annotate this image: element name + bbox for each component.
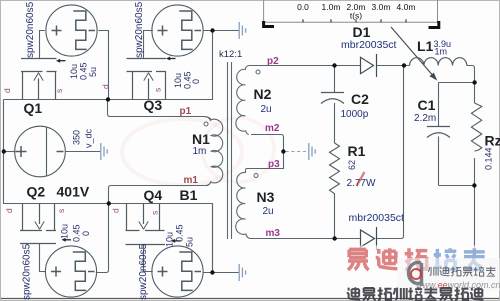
svg-text:N3: N3 (257, 189, 275, 205)
svg-text:3.0m: 3.0m (372, 2, 391, 12)
svg-text:d: d (111, 208, 121, 213)
svg-text:0.144: 0.144 (484, 147, 494, 170)
svg-text:Q2: Q2 (27, 184, 46, 200)
svg-text:R1: R1 (348, 143, 366, 159)
svg-text:0.45: 0.45 (175, 224, 185, 242)
svg-text:350: 350 (72, 130, 82, 145)
svg-text:s: s (150, 211, 160, 215)
svg-text:spw20n60s5: spw20n60s5 (22, 243, 33, 300)
svg-text:p1: p1 (180, 106, 192, 117)
svg-text:0: 0 (191, 79, 201, 84)
svg-text:5u: 5u (88, 67, 98, 77)
svg-text:spw20n60s5: spw20n60s5 (138, 243, 149, 300)
svg-text:5u: 5u (185, 237, 195, 247)
svg-text:10u: 10u (173, 73, 183, 88)
svg-text:d: d (2, 88, 12, 93)
svg-text:2u: 2u (263, 206, 274, 217)
svg-text:Q3: Q3 (144, 97, 163, 113)
svg-text:10u: 10u (69, 64, 79, 79)
svg-text:4.0m: 4.0m (397, 2, 416, 12)
svg-text:m3: m3 (266, 228, 281, 239)
svg-text:0.0: 0.0 (297, 2, 309, 12)
svg-text:0.45: 0.45 (72, 224, 82, 242)
svg-text:d: d (4, 208, 14, 213)
svg-text:B1: B1 (180, 187, 198, 203)
svg-text:0: 0 (81, 231, 91, 236)
svg-text:N2: N2 (254, 86, 272, 102)
svg-text:D1: D1 (353, 24, 371, 40)
svg-text:2u: 2u (261, 104, 272, 115)
svg-text:Q1: Q1 (24, 100, 43, 116)
svg-text:spw20n60s5: spw20n60s5 (25, 1, 36, 58)
svg-text:C1: C1 (418, 97, 436, 113)
svg-text:401V: 401V (57, 184, 90, 200)
svg-text:Q4: Q4 (144, 187, 163, 203)
svg-text:10u: 10u (60, 224, 70, 239)
svg-text:mbr20035ct: mbr20035ct (341, 39, 397, 51)
svg-text:spw20n60s5: spw20n60s5 (134, 1, 145, 58)
svg-text:1000p: 1000p (341, 109, 369, 120)
svg-text:0.45: 0.45 (79, 62, 89, 80)
svg-text:t(s): t(s) (350, 11, 362, 21)
svg-text:10u: 10u (165, 232, 175, 247)
svg-text:s: s (153, 88, 163, 92)
svg-text:v_dc: v_dc (84, 128, 94, 148)
svg-text:d: d (101, 84, 111, 89)
svg-text:Rz: Rz (485, 133, 500, 149)
svg-text:62: 62 (347, 160, 357, 170)
svg-text:s: s (56, 209, 66, 213)
svg-text:C2: C2 (351, 91, 369, 107)
svg-text:1m: 1m (435, 47, 448, 57)
svg-text:k12:1: k12:1 (219, 49, 242, 60)
svg-text:p2: p2 (267, 56, 279, 67)
svg-text:mbr20035ct: mbr20035ct (349, 212, 405, 224)
svg-text:s: s (54, 89, 64, 93)
svg-text:2.2m: 2.2m (414, 113, 436, 124)
svg-text:1.0m: 1.0m (322, 2, 341, 12)
svg-text:1m: 1m (193, 146, 207, 157)
svg-text:L1: L1 (417, 38, 434, 54)
